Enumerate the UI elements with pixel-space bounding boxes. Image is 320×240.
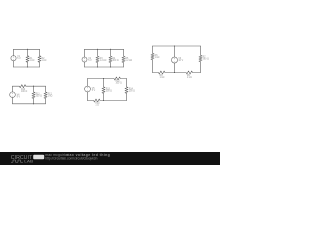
- svg-text:100 Ω: 100 Ω: [129, 90, 135, 92]
- label V3 value: [178, 58, 183, 62]
- resistor R2: [38, 49, 41, 67]
- resistor R6: [151, 46, 154, 73]
- wire: circuit2 top rail: [85, 48, 124, 50]
- label R15 value: [116, 81, 122, 85]
- wire: circuit5 top rail left segment: [88, 78, 104, 80]
- wire: circuit1 bottom rail: [14, 66, 40, 68]
- wire: circuit4 top rail right segment: [34, 85, 46, 87]
- svg-text:5 V: 5 V: [92, 90, 96, 92]
- resistor R10 on circuit4 top rail: [13, 85, 34, 88]
- resistor R9 on bottom rail: [175, 71, 201, 74]
- svg-text:1 kΩ: 1 kΩ: [48, 96, 53, 98]
- voltage source V2: [82, 49, 87, 67]
- junction: circuit3 top node: [174, 45, 175, 46]
- label V2 value: [88, 58, 92, 62]
- label R10 value: [21, 89, 27, 93]
- svg-text:300 Ω: 300 Ω: [106, 90, 112, 92]
- svg-text:1 kΩ: 1 kΩ: [160, 77, 165, 79]
- label R8 value: [160, 75, 165, 79]
- svg-text:390 Ω: 390 Ω: [203, 59, 209, 61]
- svg-text:LAB: LAB: [24, 159, 33, 164]
- svg-text:http://circuitlab.com/circuit/: http://circuitlab.com/circuit/c8uqvk3n: [45, 156, 97, 160]
- label V4 value: [17, 94, 21, 98]
- voltage source V5: [85, 79, 91, 101]
- label R3 value: [100, 58, 107, 62]
- svg-text:1 kΩ: 1 kΩ: [42, 60, 47, 62]
- wire: circuit5 bottom rail right segment: [104, 100, 127, 102]
- junction: circuit5 top node: [103, 78, 104, 79]
- svg-text:5 V: 5 V: [88, 60, 92, 62]
- svg-text:1.2 kΩ: 1.2 kΩ: [100, 60, 107, 62]
- resistor R1: [26, 49, 29, 67]
- resistor R14: [125, 79, 128, 101]
- svg-text:100 Ω: 100 Ω: [116, 83, 122, 85]
- label R11 value: [36, 94, 42, 98]
- svg-text:1 kΩ: 1 kΩ: [155, 57, 160, 59]
- label R7 value: [203, 57, 209, 61]
- resistor R8 on bottom rail: [153, 71, 175, 74]
- label V5 value: [92, 88, 96, 92]
- svg-text:1 kΩ: 1 kΩ: [187, 77, 192, 79]
- wire: circuit3 top rail: [153, 45, 201, 47]
- resistor R12: [44, 86, 47, 104]
- svg-text:300 Ω: 300 Ω: [112, 60, 118, 62]
- resistor R16 on circuit5 bottom rail: [88, 99, 104, 102]
- resistor R11: [32, 86, 35, 104]
- label R12 value: [48, 94, 53, 98]
- voltage source V4: [10, 86, 16, 104]
- voltage source V3: [172, 46, 178, 73]
- resistor R15 on circuit5 top rail: [104, 77, 127, 80]
- junction: circuit2 top node a: [97, 49, 98, 50]
- junction: circuit2 bottom node a: [97, 66, 98, 67]
- wire: circuit4 bottom rail: [13, 103, 46, 105]
- svg-text:1.2 kΩ: 1.2 kΩ: [125, 60, 132, 62]
- junction: circuit5 bottom node: [103, 100, 104, 101]
- resistor R7: [199, 46, 202, 73]
- label R14 value: [129, 88, 135, 92]
- svg-text:5 V: 5 V: [17, 58, 21, 60]
- svg-text:1 Ω: 1 Ω: [95, 105, 99, 107]
- label R6 value: [155, 55, 160, 59]
- CircuitLab logo white box: [33, 155, 44, 160]
- voltage source V1: [11, 49, 16, 67]
- resistor R4: [109, 49, 112, 67]
- svg-text:10 V: 10 V: [178, 60, 183, 62]
- label R9 value: [187, 75, 192, 79]
- junction: circuit4 bottom node: [33, 103, 34, 104]
- label R13 value: [106, 88, 112, 92]
- resistor R5: [122, 49, 125, 67]
- junction: circuit2 bottom node b: [110, 66, 111, 67]
- svg-text:9 V: 9 V: [17, 96, 21, 98]
- junction: circuit4 top node: [33, 86, 34, 87]
- label R1 value: [30, 58, 35, 62]
- footer attribution line 1: [45, 153, 110, 157]
- junction: circuit1 top node: [27, 49, 28, 50]
- resistor R3: [96, 49, 99, 67]
- resistor R13: [102, 79, 105, 101]
- svg-text:1 kΩ: 1 kΩ: [30, 60, 35, 62]
- svg-text:100 Ω: 100 Ω: [21, 91, 27, 93]
- junction: circuit3 bottom node: [174, 72, 175, 73]
- CircuitLab logo square wave: [11, 160, 23, 162]
- wire: circuit1 top rail: [14, 48, 40, 50]
- label R16 value: [95, 103, 100, 107]
- label V1 value: [17, 56, 21, 60]
- label R5 value: [125, 58, 132, 62]
- label R4 value: [112, 58, 118, 62]
- junction: circuit2 top node b: [110, 49, 111, 50]
- footer bar: [0, 152, 220, 165]
- wire: circuit2 bottom rail: [85, 66, 124, 68]
- svg-text:330 Ω: 330 Ω: [36, 96, 42, 98]
- junction: circuit1 bottom node: [27, 66, 28, 67]
- label R2 value: [42, 58, 47, 62]
